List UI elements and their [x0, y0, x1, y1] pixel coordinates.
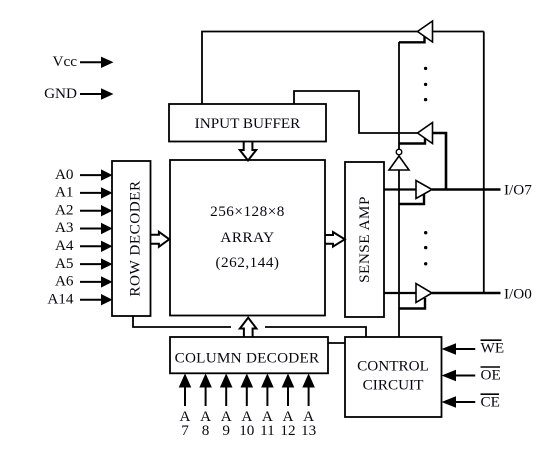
- svg-text:A14: A14: [47, 290, 74, 307]
- hollow arrow column decoder to array: [240, 318, 257, 337]
- column address input A11: [260, 373, 275, 438]
- svg-text:13: 13: [301, 422, 316, 439]
- column decoder block: [170, 337, 328, 373]
- ellipsis dots lower IO group: [424, 231, 427, 265]
- enable inverter with bubble: [389, 149, 409, 170]
- svg-text:9: 9: [222, 422, 230, 439]
- svg-text:10: 10: [239, 422, 255, 439]
- column address input A7: [179, 373, 192, 438]
- read buffer IO7 (right pointing): [416, 181, 432, 199]
- svg-text:CIRCUIT: CIRCUIT: [363, 377, 424, 394]
- sense amp block: [345, 162, 384, 317]
- wire sense amp to IO0 read buffer: [384, 292, 416, 294]
- control input OE arrow: [442, 370, 476, 382]
- hollow arrow array to sense amp: [326, 232, 345, 247]
- column address input A8: [199, 373, 212, 438]
- address input A6: [55, 273, 113, 290]
- svg-text:CONTROL: CONTROL: [357, 358, 429, 375]
- svg-text:A1: A1: [55, 184, 74, 201]
- svg-text:A3: A3: [55, 219, 74, 236]
- svg-text:A2: A2: [55, 201, 74, 218]
- column address input A10: [239, 373, 255, 438]
- column address input A9: [220, 373, 233, 438]
- svg-text:SENSE AMP: SENSE AMP: [356, 196, 373, 283]
- column address input A12: [280, 373, 295, 438]
- wire top data bus from write buffer to input buffer: [202, 32, 418, 105]
- svg-text:A4: A4: [55, 237, 74, 254]
- address input A3: [55, 219, 113, 236]
- wire top write buffer input from IO0 column: [433, 31, 484, 33]
- address input A0: [55, 166, 113, 183]
- wire IO7 output line: [432, 188, 501, 190]
- address input A14: [47, 290, 112, 307]
- svg-text:A0: A0: [55, 166, 74, 183]
- wire second write buffer input tap from IO7: [433, 133, 447, 190]
- wire enable branch second write buffer: [399, 138, 425, 144]
- svg-text:COLUMN DECODER: COLUMN DECODER: [175, 349, 320, 366]
- address input A4: [55, 237, 113, 254]
- svg-text:GND: GND: [44, 85, 77, 102]
- svg-text:ROW DECODER: ROW DECODER: [126, 180, 143, 297]
- control input WE arrow: [442, 343, 476, 355]
- hollow arrow row decoder to array: [151, 232, 169, 247]
- control input CE label with overline: [481, 393, 500, 410]
- wire sense amp to IO7 read buffer: [384, 188, 416, 190]
- write buffer IO7 (left pointing): [418, 123, 433, 144]
- hollow arrow input buffer to array: [240, 142, 256, 161]
- write buffer top (left pointing): [418, 21, 433, 42]
- address input A1: [55, 184, 113, 201]
- svg-text:WE: WE: [481, 340, 505, 357]
- control input CE arrow: [442, 396, 476, 408]
- wire IO0 output line: [432, 292, 501, 294]
- GND arrow: [80, 88, 114, 99]
- svg-text:I/O7: I/O7: [504, 181, 532, 198]
- memory array block: [170, 160, 325, 316]
- control input OE label with overline: [481, 366, 501, 383]
- wire IO0 riser: [483, 32, 485, 294]
- svg-text:CE: CE: [481, 393, 500, 410]
- svg-text:A5: A5: [55, 255, 74, 272]
- svg-text:INPUT BUFFER: INPUT BUFFER: [195, 115, 302, 132]
- svg-text:11: 11: [260, 422, 275, 439]
- wire enable branch top buffer: [399, 37, 425, 43]
- svg-text:256×128×8: 256×128×8: [210, 203, 285, 220]
- svg-text:Vcc: Vcc: [53, 53, 78, 70]
- control circuit block: [345, 337, 442, 417]
- Vcc arrow: [80, 57, 114, 68]
- ellipsis dots upper IO group: [424, 67, 427, 102]
- svg-text:8: 8: [202, 422, 210, 439]
- wire enable vertical below inverter to control circuit: [398, 170, 400, 337]
- svg-text:A6: A6: [55, 273, 74, 290]
- row decoder block: [112, 161, 151, 316]
- svg-text:7: 7: [181, 422, 189, 439]
- svg-text:I/O0: I/O0: [504, 285, 532, 302]
- control input WE label with overline: [481, 340, 505, 357]
- read buffer IO0 (right pointing): [416, 284, 432, 303]
- wire column decoder to control circuit: [328, 342, 345, 344]
- wire enable branch IO7 read buffer: [399, 194, 424, 204]
- column address input A13: [301, 373, 316, 438]
- wire second write buffer output to input buffer: [294, 91, 418, 133]
- svg-text:(262,144): (262,144): [216, 254, 280, 271]
- wire row decoder to control circuit: [133, 316, 366, 337]
- svg-text:OE: OE: [481, 366, 501, 383]
- input buffer block: [169, 104, 326, 142]
- wire enable branch IO0 read buffer: [399, 298, 425, 309]
- svg-text:ARRAY: ARRAY: [220, 229, 274, 246]
- wire enable vertical above inverter: [398, 42, 400, 149]
- address input A2: [55, 201, 113, 218]
- address input A5: [55, 255, 113, 272]
- svg-text:12: 12: [280, 422, 295, 439]
